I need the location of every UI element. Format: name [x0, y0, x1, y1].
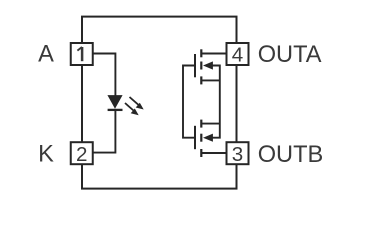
pin box 2: [71, 142, 93, 164]
svg-text:3: 3: [232, 143, 243, 166]
svg-text:OUTA: OUTA: [258, 42, 322, 68]
pin box 1: [71, 43, 93, 65]
MOSFET Q2 (lower, drain to pin 3): [195, 120, 213, 157]
LED emission arrow 2: [125, 103, 139, 115]
wire pin1 to LED anode: [93, 54, 116, 97]
MOSFET Q1 (upper, drain to pin 4): [195, 49, 213, 84]
svg-text:K: K: [38, 141, 54, 167]
svg-text:2: 2: [76, 143, 87, 166]
pin number 1: [77, 47, 82, 61]
svg-text:OUTB: OUTB: [258, 142, 324, 168]
LED emission arrow 1: [130, 97, 144, 110]
wire MOSFET drain B to pin3: [201, 152, 226, 154]
wire MOSFET drain A to pin4: [201, 53, 226, 55]
LED D1: [108, 96, 123, 110]
pin box 3: [227, 142, 249, 164]
wire source B: [201, 123, 220, 125]
wire source A: [201, 79, 220, 81]
svg-text:A: A: [38, 42, 54, 68]
svg-text:4: 4: [232, 44, 243, 67]
IC body outline: [82, 17, 237, 189]
wire common source: [211, 66, 220, 138]
pin box 4: [227, 43, 249, 65]
wire gate bus: [183, 66, 195, 138]
wire LED cathode to pin2: [93, 111, 116, 153]
